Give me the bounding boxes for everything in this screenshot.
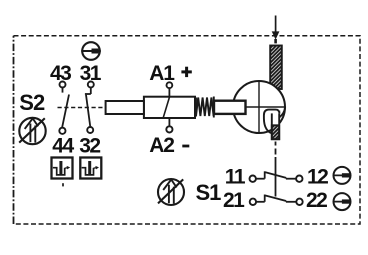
contact 43-44 (NO)	[59, 82, 69, 134]
bolt lower in cam notch (hatched)	[272, 111, 279, 139]
terminal A1	[167, 82, 173, 96]
svg-text:21: 21	[223, 189, 245, 212]
svg-text:22: 22	[306, 189, 327, 212]
screw terminal symbol (right of 12)	[334, 167, 351, 184]
actuator symbol S2 (circle, slash, arrow)	[19, 118, 45, 144]
cam disc	[233, 81, 285, 133]
svg-text:31: 31	[80, 62, 102, 85]
locking bolt upper (hatched)	[270, 46, 282, 90]
svg-text:11: 11	[225, 166, 246, 189]
contact 21-22 (NC)	[250, 195, 303, 206]
svg-text:44: 44	[52, 135, 74, 158]
solenoid coil (A1-A2)	[144, 97, 195, 118]
svg-text:A1: A1	[149, 62, 175, 85]
terminal A2	[166, 118, 172, 133]
cam crosshair vertical	[258, 81, 260, 134]
label A1 +	[149, 62, 192, 85]
label A2 -	[149, 134, 189, 157]
contact 31-32 (NC)	[85, 82, 94, 134]
cam crosshair horizontal	[244, 106, 286, 108]
enclosure (dashed housing outline)	[14, 36, 361, 224]
svg-text:43: 43	[50, 62, 71, 85]
positive-opening symbol box (below 44)	[52, 158, 73, 179]
screw terminal symbol (above 31)	[81, 42, 101, 60]
cam hook (locking finger)	[264, 107, 285, 133]
screw terminal symbol (right of 22)	[334, 193, 351, 210]
solenoid armature diagonal	[163, 97, 169, 118]
mechanical linkage (vertical, bolt to contacts)	[275, 142, 277, 197]
positive-opening symbol box (below 32)	[80, 158, 101, 179]
center-line tick below box 44	[62, 183, 64, 186]
plunger rod (left, to coil)	[106, 101, 144, 114]
svg-text:S1: S1	[196, 180, 222, 205]
svg-text:12: 12	[307, 166, 328, 189]
spring	[196, 97, 214, 118]
actuator symbol S1 (circle, slash, arrow)	[158, 179, 184, 205]
mechanical linkage (horizontal dash-dot)	[58, 107, 106, 109]
plunger rod (right, spring to cam)	[214, 101, 246, 114]
svg-text:A2: A2	[149, 134, 174, 157]
svg-text:32: 32	[79, 135, 100, 158]
svg-text:S2: S2	[19, 90, 45, 115]
actuator arrow (top)	[272, 16, 280, 44]
contact 11-12 (NC)	[250, 171, 303, 182]
